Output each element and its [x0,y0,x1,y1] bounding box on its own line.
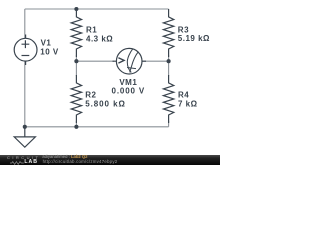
svg-text:V1: V1 [41,39,52,48]
svg-text:R3: R3 [178,25,189,34]
svg-text:10 V: 10 V [40,48,59,57]
svg-text:R2: R2 [85,91,96,100]
svg-text:R1: R1 [86,26,97,35]
svg-text:5.800 kΩ: 5.800 kΩ [85,100,126,109]
svg-text:7 kΩ: 7 kΩ [178,100,198,109]
svg-text:4.3 kΩ: 4.3 kΩ [86,34,113,43]
svg-text:5.19 kΩ: 5.19 kΩ [178,34,210,43]
svg-text:0.000 V: 0.000 V [112,87,146,96]
svg-text:R4: R4 [178,91,189,100]
